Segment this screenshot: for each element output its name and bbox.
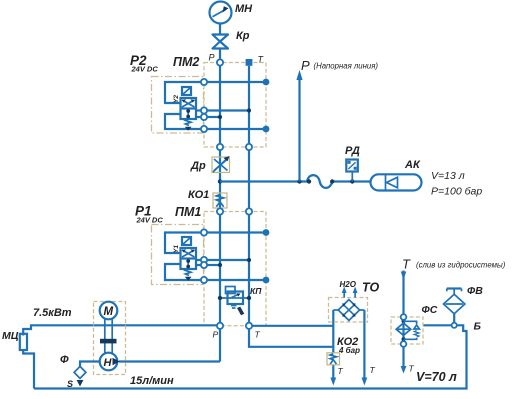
water arrows Н2О bbox=[342, 287, 358, 298]
svg-text:ФВ: ФВ bbox=[467, 285, 483, 297]
accumulator АК bbox=[371, 174, 422, 191]
wire gauge to valve Кр bbox=[219, 23, 221, 34]
wire drain line inside ФС bbox=[402, 317, 404, 344]
svg-text:АК: АК bbox=[404, 159, 421, 171]
wire P line inside ПМ1 bbox=[219, 212, 221, 326]
port circle ПМ1 left 2 bbox=[201, 257, 207, 263]
port circle ФС bottom bbox=[401, 341, 407, 347]
bypass of ФС bbox=[404, 321, 417, 339]
svg-text:Т: Т bbox=[255, 330, 261, 340]
motor pump unit boundary bbox=[94, 302, 126, 375]
svg-text:МЦ: МЦ bbox=[2, 330, 19, 342]
junction T gallery A ПМ1 bbox=[247, 258, 251, 262]
svg-text:Р: Р bbox=[209, 53, 215, 63]
wire valve Y1 to port B bbox=[196, 264, 201, 266]
port circle ПМ1 bottom T bbox=[246, 323, 252, 329]
directional valve Y1 body bbox=[181, 248, 197, 269]
return filter ФС boundary bbox=[391, 317, 423, 344]
svg-text:Y2: Y2 bbox=[173, 95, 180, 103]
wire middle gallery A ПМ2 bbox=[204, 109, 249, 111]
svg-text:Н2О: Н2О bbox=[340, 280, 357, 289]
plugged port T top of ПМ2 bbox=[246, 59, 253, 66]
throttle Др bbox=[212, 156, 230, 173]
solenoid valve Р1 dash-dot boundary bbox=[152, 225, 204, 285]
wire middle gallery A ПМ1 bbox=[204, 259, 249, 261]
junction hose right bbox=[330, 179, 334, 183]
port filled ПМ2 right 2 bbox=[263, 126, 270, 133]
port circle ПМ1 left 1 bbox=[201, 229, 207, 235]
port circle ПМ1 top P bbox=[217, 208, 223, 214]
svg-text:15л/мин: 15л/мин bbox=[130, 375, 174, 387]
pressure gauge МН bbox=[210, 2, 232, 24]
wire valve Y1 loop top bbox=[165, 233, 201, 254]
svg-text:М: М bbox=[104, 306, 114, 318]
coupling bbox=[100, 339, 117, 344]
flexible hose bbox=[307, 175, 332, 188]
svg-text:ПМ2: ПМ2 bbox=[173, 55, 199, 69]
relief valve КП bbox=[220, 287, 249, 316]
solenoid coil Y2 bbox=[182, 87, 191, 95]
svg-text:V=70 л: V=70 л bbox=[416, 370, 457, 384]
junction P gallery B bbox=[218, 115, 222, 119]
manifold block ПМ1 boundary bbox=[204, 212, 266, 326]
svg-text:Р=100 бар: Р=100 бар bbox=[431, 186, 482, 198]
svg-text:Др: Др bbox=[190, 160, 206, 172]
wire pressure branch to accumulator bbox=[220, 180, 307, 182]
wire T line inside ПМ1 bbox=[248, 212, 250, 326]
junction P gallery B ПМ1 bbox=[218, 263, 222, 267]
svg-text:Т: Т bbox=[370, 365, 376, 375]
svg-text:Т: Т bbox=[409, 364, 415, 374]
wire valve loop top bbox=[165, 82, 201, 103]
electric motor М bbox=[100, 302, 118, 320]
check valve КО1 bbox=[213, 193, 227, 208]
wire pump output bbox=[119, 360, 220, 362]
svg-text:КП: КП bbox=[250, 286, 262, 296]
port circle ПМ2 left 1 bbox=[201, 79, 207, 85]
wire cooler left riser bbox=[332, 310, 334, 353]
wire cooler right riser bbox=[363, 310, 365, 379]
shaft motor to pump bbox=[105, 319, 112, 353]
svg-text:МН: МН bbox=[235, 3, 253, 15]
check valve КО2 bbox=[327, 353, 340, 365]
tank outline bbox=[34, 325, 467, 388]
suction strainer Ф bbox=[74, 366, 86, 378]
port filled ПМ1 right 2 bbox=[263, 277, 270, 284]
wire middle gallery B ПМ2 bbox=[204, 116, 220, 118]
svg-text:Н: Н bbox=[104, 357, 113, 369]
wire riser напорная линия bbox=[298, 79, 300, 182]
port filled ПМ2 right 1 bbox=[263, 79, 270, 86]
svg-text:Т: Т bbox=[338, 366, 344, 376]
directional valve Y2 body bbox=[181, 98, 197, 119]
junction hose left bbox=[307, 179, 311, 183]
junction P to accumulator line bbox=[218, 179, 222, 183]
wire cooler stubs bbox=[333, 309, 339, 311]
wire lower gallery ПМ1 bbox=[204, 279, 266, 281]
wire lower gallery ПМ2 bbox=[204, 128, 266, 130]
junction riser напорная линия bbox=[297, 179, 301, 183]
manifold block ПМ2 boundary bbox=[204, 63, 266, 148]
wire T line ПМ2 to ПМ1 bbox=[248, 150, 250, 208]
junction drain top bbox=[402, 319, 406, 323]
spring of valve Y2 bbox=[185, 119, 191, 125]
svg-text:Кр: Кр bbox=[236, 30, 250, 42]
wire valve to port A bbox=[196, 109, 201, 111]
wire T port to cooler riser bbox=[252, 325, 333, 327]
svg-text:КО1: КО1 bbox=[188, 189, 209, 201]
svg-text:4 бар: 4 бар bbox=[338, 346, 360, 355]
wire pump riser to port P bbox=[219, 329, 221, 362]
port circle ПМ2 left 4 bbox=[201, 126, 207, 132]
svg-text:ТО: ТО bbox=[362, 281, 379, 295]
svg-text:Б: Б bbox=[474, 321, 482, 333]
port circle ПМ1 left 3 bbox=[201, 262, 207, 268]
wire P line inside ПМ2 bbox=[219, 63, 221, 148]
port circle ПМ2 P top bbox=[217, 59, 223, 65]
wire suction line bbox=[80, 362, 100, 367]
wire valve loop bottom bbox=[165, 114, 201, 129]
wire cylinder МЦ to port P bbox=[23, 325, 217, 335]
junction РД branch bbox=[350, 179, 354, 183]
wire T port drop bbox=[249, 329, 333, 347]
solenoid valve Р2 dash-dot boundary bbox=[152, 77, 204, 134]
wire МЦ lower to tank bbox=[23, 350, 34, 389]
svg-text:Р: Р bbox=[301, 58, 310, 73]
svg-text:Y1: Y1 bbox=[173, 245, 180, 253]
svg-text:Т: Т bbox=[402, 257, 411, 272]
svg-text:24V DC: 24V DC bbox=[131, 65, 159, 74]
port circle ПМ2 bottom P bbox=[217, 144, 223, 150]
port circle ПМ2 bottom T bbox=[246, 144, 252, 150]
port circle ПМ1 top T bbox=[246, 208, 252, 214]
port filled ПМ1 right 1 bbox=[263, 229, 270, 236]
wire drain line lower bbox=[402, 344, 404, 367]
wire valve to port B bbox=[196, 116, 201, 118]
svg-text:(слив из гидросистемы): (слив из гидросистемы) bbox=[416, 261, 506, 270]
wire upper gallery ПМ1 bbox=[204, 231, 266, 233]
port circle ПМ2 left 2 bbox=[201, 107, 207, 113]
port circle ФС top bbox=[401, 314, 407, 320]
heat exchanger ТО boundary bbox=[329, 298, 368, 323]
svg-text:ФС: ФС bbox=[422, 304, 438, 316]
solenoid coil Y1 bbox=[182, 237, 191, 245]
junction drain bottom bbox=[402, 337, 406, 341]
svg-text:(Напорная линия): (Напорная линия) bbox=[314, 62, 379, 71]
wire P line ПМ2 to ПМ1 bbox=[219, 150, 221, 208]
junction P to КП bbox=[218, 296, 222, 300]
svg-text:ПМ1: ПМ1 bbox=[175, 205, 201, 219]
port circle ПМ1 bottom P bbox=[217, 323, 223, 329]
return filter ФС bbox=[396, 323, 411, 335]
port circle ПМ1 left 4 bbox=[201, 277, 207, 283]
svg-text:7.5кВт: 7.5кВт bbox=[33, 307, 72, 319]
wire valve Y1 to port A bbox=[196, 259, 201, 261]
wire drain line upper bbox=[402, 271, 404, 318]
wire РД stem bbox=[351, 172, 353, 182]
port circle ФВ tank line bbox=[452, 323, 457, 328]
pressure switch РД bbox=[346, 160, 358, 172]
shutoff valve Кр bbox=[213, 35, 229, 49]
wire ФВ to tank line bbox=[453, 314, 455, 326]
heat exchanger ТО bbox=[338, 300, 359, 321]
wire upper gallery ПМ2 bbox=[204, 81, 266, 83]
junction T to КП bbox=[247, 296, 251, 300]
wire hose to accumulator АК bbox=[332, 180, 370, 182]
wire middle gallery B ПМ1 bbox=[204, 264, 220, 266]
spring of valve Y1 bbox=[185, 269, 191, 275]
svg-text:24V DC: 24V DC bbox=[136, 216, 164, 225]
suction inlet S bbox=[77, 380, 84, 387]
wire valve Y1 loop bottom bbox=[165, 264, 201, 280]
wire T line inside ПМ2 bbox=[248, 66, 250, 147]
svg-text:Ф: Ф bbox=[60, 354, 69, 366]
svg-text:V=13 л: V=13 л bbox=[431, 170, 465, 182]
svg-text:Р: Р bbox=[213, 330, 219, 340]
breather ФВ bbox=[444, 289, 465, 314]
svg-text:РД: РД bbox=[345, 145, 360, 157]
cylinder МЦ bbox=[20, 334, 27, 350]
port circle ПМ2 left 3 bbox=[201, 114, 207, 120]
wire Кр to ПМ2 port P bbox=[219, 49, 221, 63]
junction T gallery A bbox=[247, 108, 251, 112]
pump Н bbox=[100, 353, 120, 371]
